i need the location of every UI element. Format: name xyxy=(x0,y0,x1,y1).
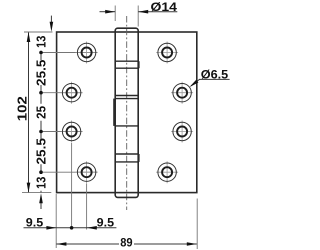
knuckle division 2 xyxy=(115,96,138,99)
screw hole bottom-right xyxy=(156,161,178,183)
knuckle division band 1 (bearing) xyxy=(115,61,139,68)
top edge extension tick xyxy=(24,31,53,33)
dimension 9.5 / 9.5 line xyxy=(24,227,117,229)
screw hole bottom-left xyxy=(76,161,98,183)
chain bottom arrow xyxy=(40,201,42,209)
screw hole row extension lines xyxy=(43,53,98,173)
bottom vertical extension lines xyxy=(56,143,197,249)
svg-text:25: 25 xyxy=(35,106,49,119)
dimension Ø6.5 leader xyxy=(199,78,230,80)
knuckle division band 4 (bearing) xyxy=(115,154,139,162)
svg-text:Ø6.5: Ø6.5 xyxy=(201,67,228,81)
screw hole row2-right xyxy=(171,82,193,104)
hinge leaf plate outline xyxy=(57,32,197,193)
screw hole top-left xyxy=(76,42,98,64)
dimension Ø14 leader arrows xyxy=(100,11,116,13)
hinge barrel centerline xyxy=(126,16,128,210)
svg-text:102: 102 xyxy=(16,96,30,121)
svg-text:25.5: 25.5 xyxy=(35,60,49,86)
dimension 102 line xyxy=(28,32,30,193)
dimension Ø14 extension lines xyxy=(115,6,138,27)
chain dimension line 13/25.5/25/25.5/13 xyxy=(40,51,42,193)
svg-text:89: 89 xyxy=(120,236,132,250)
screw hole row3-right xyxy=(171,121,193,143)
chain top arrow xyxy=(50,16,52,24)
bottom edge extension tick xyxy=(22,192,51,194)
screw hole top-right xyxy=(156,42,178,64)
screw hole row3-left xyxy=(61,121,83,143)
svg-text:9.5: 9.5 xyxy=(26,215,44,229)
svg-text:Ø14: Ø14 xyxy=(151,0,178,14)
svg-text:13: 13 xyxy=(35,36,49,48)
svg-text:25.5: 25.5 xyxy=(35,138,49,164)
hinge barrel knuckle outline xyxy=(115,28,138,197)
knuckle division 3 xyxy=(114,99,138,126)
svg-text:9.5: 9.5 xyxy=(97,215,115,229)
screw hole row2-left xyxy=(61,82,83,104)
dimension 89 line xyxy=(56,243,119,245)
svg-text:13: 13 xyxy=(35,177,49,189)
chain boundary dots xyxy=(39,51,43,174)
